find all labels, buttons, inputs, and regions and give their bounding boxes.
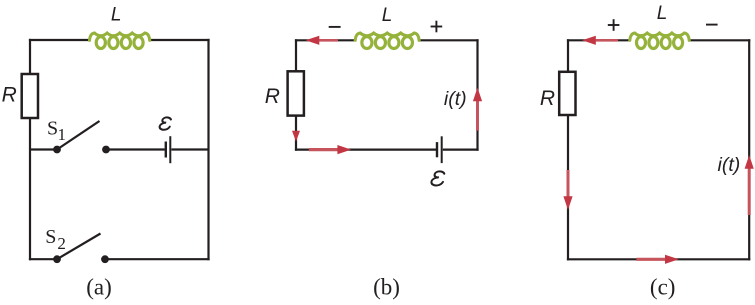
inductor L coil (a): [90, 33, 150, 48]
wire: (a) middle branch, switch S1 to battery: [106, 148, 165, 150]
battery EMF source (b): short negative plate: [436, 142, 438, 157]
svg-text:1: 1: [58, 125, 67, 144]
polarity minus sign (b), left of inductor: [329, 26, 341, 28]
wire: (c) right side: [748, 39, 750, 260]
svg-text:i(t): i(t): [444, 88, 467, 110]
polarity plus sign (b), right of inductor: [431, 21, 443, 33]
current arrow on (c) right wire, pointing up: [745, 155, 754, 215]
current arrow on (b) right wire, pointing up: [473, 88, 482, 131]
wire: (a) top side left segment: [29, 39, 91, 41]
svg-text:R: R: [2, 84, 17, 107]
current arrow on (b) bottom wire, pointing right: [309, 145, 351, 154]
svg-text:L: L: [382, 5, 393, 26]
label S2: [45, 226, 66, 253]
wire: (c) bottom side: [567, 258, 750, 260]
wire: (a) top side right segment: [149, 39, 210, 41]
current arrowhead on (b) left wire, pointing down: [292, 131, 300, 142]
svg-text:(b): (b): [373, 275, 400, 300]
wire: (a) middle branch, left of switch S1: [30, 148, 57, 150]
svg-text:L: L: [657, 3, 668, 24]
svg-text:2: 2: [57, 234, 66, 253]
inductor L coil (c): [630, 33, 689, 48]
svg-text:R: R: [540, 87, 555, 110]
wire: (b) top side right segment: [418, 39, 479, 41]
wire: (c) top side right segment: [688, 39, 750, 41]
battery EMF source (a): long positive plate: [169, 136, 171, 163]
switch S2 (pivot dot, blade, throw dot): [53, 234, 109, 264]
wire: (a) middle branch, battery to right side: [171, 148, 208, 150]
wire: (b) bottom side left of battery: [295, 149, 436, 151]
wire: (b) right side: [476, 39, 478, 151]
wire: (a) left side: [29, 39, 31, 260]
battery EMF source (a): short negative plate: [165, 142, 167, 158]
svg-text:R: R: [265, 85, 280, 108]
wire: (c) top side left segment: [567, 39, 631, 41]
polarity plus sign (c), left of inductor: [608, 19, 620, 31]
current arrow on (c) top wire, pointing left: [582, 36, 618, 45]
svg-text:(a): (a): [86, 275, 112, 300]
label S1: [47, 118, 66, 144]
polarity minus sign (c), right of inductor: [706, 24, 718, 26]
svg-text:L: L: [111, 5, 122, 26]
svg-text:i(t): i(t): [718, 154, 741, 176]
wire: (a) right side: [207, 39, 209, 260]
current arrow on (c) bottom wire, pointing right: [636, 255, 678, 264]
current arrow on (c) left wire, pointing down: [563, 170, 572, 210]
resistor R (a): [22, 74, 38, 118]
label EMF script-E (a): [159, 117, 171, 129]
inductor L coil (b): [355, 33, 419, 48]
wire: (b) top side left segment: [295, 39, 356, 41]
wire: (c) left side: [567, 39, 569, 260]
wire: (b) left side: [295, 39, 297, 151]
wire: (b) bottom side right of battery: [443, 149, 479, 151]
wire: (a) bottom side, left of switch S2: [29, 258, 57, 260]
svg-text:(c): (c): [650, 275, 676, 300]
wire: (a) bottom side, right of switch S2: [105, 258, 210, 260]
battery EMF source (b): long positive plate: [441, 136, 443, 163]
resistor R (c): [559, 72, 575, 115]
switch S1 (pivot dot, blade, throw dot): [53, 121, 110, 153]
resistor R (b): [288, 71, 304, 115]
label EMF script-E (b): [431, 171, 445, 185]
svg-text:S: S: [47, 118, 58, 140]
svg-text:S: S: [45, 226, 56, 248]
current arrow on (b) top wire, pointing left: [306, 36, 339, 45]
